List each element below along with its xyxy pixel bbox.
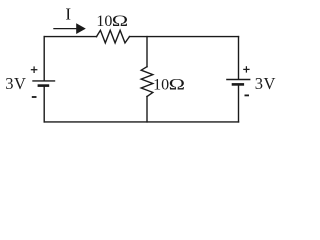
battery V1 negative plate xyxy=(38,84,50,87)
wire middle-upper xyxy=(146,37,148,67)
wire top-right segment xyxy=(130,36,239,38)
wire left-lower xyxy=(43,86,45,122)
resistor R2 (10 ohm, vertical) xyxy=(141,67,153,97)
wire right-lower xyxy=(238,84,240,122)
wire middle-lower xyxy=(146,97,148,122)
battery V1 minus sign xyxy=(32,96,37,98)
svg-text:Ω: Ω xyxy=(169,76,185,93)
battery V2 negative plate xyxy=(232,83,244,86)
svg-text:I: I xyxy=(65,4,71,23)
resistor R1 (10 ohm, horizontal) xyxy=(97,30,130,43)
battery V2 plus sign xyxy=(243,66,249,72)
svg-text:10: 10 xyxy=(96,13,112,30)
battery V2 minus sign xyxy=(245,94,250,96)
battery V1 positive plate xyxy=(32,80,55,82)
svg-text:Ω: Ω xyxy=(112,13,128,30)
svg-text:10: 10 xyxy=(153,77,169,94)
wire bottom xyxy=(44,121,238,123)
battery V2 positive plate xyxy=(226,79,250,81)
svg-text:3V: 3V xyxy=(5,74,26,93)
wire left-upper xyxy=(43,37,45,81)
wire right-upper xyxy=(238,37,240,80)
wire top-left segment xyxy=(44,36,96,38)
svg-text:3V: 3V xyxy=(255,74,276,93)
battery V1 plus sign xyxy=(31,66,38,73)
current arrow I xyxy=(53,23,86,34)
